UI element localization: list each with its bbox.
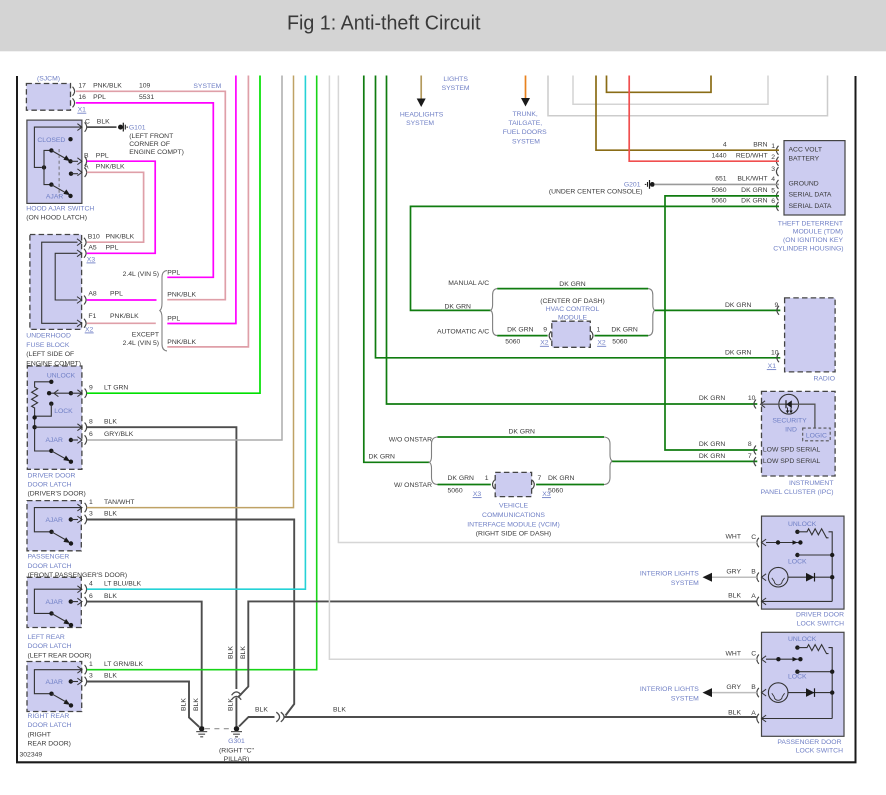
wire LT GRN driver latch pin 9 to top: [87, 75, 260, 393]
svg-text:1: 1: [89, 499, 93, 506]
svg-text:X2: X2: [597, 340, 606, 347]
svg-text:AJAR: AJAR: [46, 517, 63, 524]
svg-text:TRUNK,: TRUNK,: [512, 111, 537, 118]
svg-text:(LEFT REAR DOOR): (LEFT REAR DOOR): [28, 652, 92, 659]
svg-text:AJAR: AJAR: [46, 599, 63, 606]
svg-text:5060: 5060: [612, 339, 627, 346]
svg-text:6: 6: [89, 431, 93, 438]
svg-text:AUTOMATIC A/C: AUTOMATIC A/C: [437, 329, 489, 336]
onstar closing brace: [604, 437, 612, 485]
wire BRN TDM pin 1 to top: [596, 75, 779, 150]
onstar opening brace: [429, 437, 437, 485]
svg-text:SYSTEM: SYSTEM: [406, 120, 434, 127]
wire PNK/BLK option (except 2.4L) to top: [167, 75, 248, 347]
svg-text:DK GRN: DK GRN: [559, 281, 586, 288]
wire RED/WHT TDM pin 2 to top: [629, 75, 779, 161]
svg-text:302349: 302349: [20, 752, 43, 759]
svg-text:B: B: [751, 684, 756, 691]
svg-text:PASSENGER DOOR: PASSENGER DOOR: [777, 739, 841, 746]
lock contact: [795, 670, 799, 674]
svg-text:16: 16: [78, 94, 86, 101]
svg-text:BLK: BLK: [228, 646, 235, 659]
ground G301 left junction: [199, 726, 204, 731]
wire pin 8 internal: [35, 426, 82, 428]
wire DK GRN automatic A/C branch left: [497, 335, 547, 337]
svg-text:(UNDER CENTER CONSOLE): (UNDER CENTER CONSOLE): [549, 188, 643, 195]
svg-text:DK GRN: DK GRN: [448, 475, 475, 482]
svg-text:PNK/BLK: PNK/BLK: [167, 292, 196, 299]
svg-text:PANEL CLUSTER (IPC): PANEL CLUSTER (IPC): [761, 489, 834, 496]
illumination lamp: [768, 683, 788, 703]
hvac closing brace: [648, 289, 655, 336]
svg-text:LOCK: LOCK: [788, 559, 807, 566]
svg-text:17: 17: [78, 83, 86, 90]
svg-text:PASSENGER: PASSENGER: [28, 554, 70, 561]
svg-text:5060: 5060: [711, 187, 726, 194]
svg-text:DOOR LATCH: DOOR LATCH: [28, 722, 72, 729]
svg-text:9: 9: [89, 384, 93, 391]
illumination lamp: [768, 567, 788, 587]
hood switch upper arm: [44, 150, 51, 167]
svg-text:C: C: [85, 118, 90, 125]
svg-text:3: 3: [89, 673, 93, 680]
svg-text:LEFT REAR: LEFT REAR: [28, 634, 65, 641]
svg-text:AJAR: AJAR: [46, 679, 63, 686]
wire BLK/WHT TDM pin 4 to G201: [655, 183, 779, 185]
arrow + wire GRY to interior lights: [703, 573, 713, 582]
svg-text:1: 1: [771, 143, 775, 150]
svg-text:SERIAL DATA: SERIAL DATA: [789, 191, 832, 198]
logic block: [803, 428, 831, 441]
svg-text:(RIGHT SIDE OF DASH): (RIGHT SIDE OF DASH): [476, 531, 551, 538]
white cover clipping top of diagram: [0, 51, 886, 75]
svg-text:BLK: BLK: [255, 707, 268, 714]
svg-text:CORNER OF: CORNER OF: [129, 141, 170, 148]
hood switch lower arm: [44, 167, 51, 184]
svg-text:1: 1: [597, 327, 601, 334]
header bar: [0, 0, 886, 51]
svg-text:GRY/BLK: GRY/BLK: [104, 431, 134, 438]
wire PPL option (2.4L) to top: [167, 75, 236, 324]
svg-text:X2: X2: [540, 340, 549, 347]
svg-text:DK GRN: DK GRN: [508, 429, 535, 436]
svg-text:AJAR: AJAR: [46, 194, 63, 201]
wire PPL hood pin B to fuse block A5: [87, 161, 155, 253]
svg-text:DK GRN: DK GRN: [741, 198, 768, 205]
lock contact: [795, 553, 799, 557]
svg-text:DK GRN: DK GRN: [699, 453, 726, 460]
svg-text:LOCK SWITCH: LOCK SWITCH: [797, 621, 844, 628]
svg-text:1: 1: [89, 661, 93, 668]
svg-text:BLK: BLK: [97, 118, 110, 125]
svg-text:INTERIOR LIGHTS: INTERIOR LIGHTS: [640, 686, 699, 693]
svg-text:(RIGHT "C": (RIGHT "C": [219, 747, 254, 754]
ground G201: [650, 182, 655, 187]
wire PNK/BLK 109 from BCM pin 17 to option splice: [76, 91, 225, 299]
wire GRY/BLK driver latch pin 6 to top: [87, 75, 282, 440]
svg-text:(LEFT SIDE OF: (LEFT SIDE OF: [26, 351, 74, 358]
svg-text:BLK: BLK: [333, 707, 346, 714]
svg-text:BRN: BRN: [753, 141, 767, 148]
passenger latch ajar switch: [34, 508, 82, 532]
svg-text:LOW SPD SERIAL: LOW SPD SERIAL: [763, 458, 821, 465]
wire WHT passenger lock pin C to top: [329, 75, 756, 659]
svg-text:DOOR LATCH: DOOR LATCH: [28, 482, 72, 489]
svg-text:(CENTER OF DASH): (CENTER OF DASH): [540, 298, 605, 305]
svg-text:INSTRUMENT: INSTRUMENT: [789, 480, 834, 487]
svg-text:3: 3: [89, 511, 93, 518]
ground G101: [118, 125, 123, 130]
svg-text:3: 3: [771, 166, 775, 173]
svg-text:THEFT DETERRENT: THEFT DETERRENT: [778, 220, 843, 227]
arrow + wire GRY to interior lights: [703, 688, 713, 697]
wire BLK from driver lock switch pin A to G301: [239, 601, 757, 696]
svg-text:6: 6: [89, 593, 93, 600]
svg-text:PNK/BLK: PNK/BLK: [110, 313, 139, 320]
svg-text:10: 10: [771, 349, 779, 356]
svg-text:PPL: PPL: [93, 94, 106, 101]
svg-text:9: 9: [543, 327, 547, 334]
svg-text:CYLINDER HOUSING): CYLINDER HOUSING): [773, 245, 843, 252]
svg-text:109: 109: [139, 83, 151, 90]
latch lock/unlock resistor: [35, 382, 52, 385]
svg-text:G101: G101: [129, 125, 146, 132]
svg-text:UNLOCK: UNLOCK: [788, 636, 817, 643]
svg-text:DK GRN: DK GRN: [369, 453, 396, 460]
svg-text:SYSTEM: SYSTEM: [442, 85, 470, 92]
svg-text:BLK: BLK: [104, 593, 117, 600]
svg-text:CLOSED: CLOSED: [37, 137, 65, 144]
VCIM connector: [495, 472, 531, 496]
svg-text:8: 8: [748, 441, 752, 448]
wire LT BLU/BLK left rear latch pin 4 to top: [87, 75, 306, 589]
svg-text:7: 7: [748, 453, 752, 460]
svg-text:LIGHTS: LIGHTS: [443, 76, 468, 83]
pin A internal: [762, 718, 832, 720]
svg-text:PNK/BLK: PNK/BLK: [96, 164, 125, 171]
svg-text:5060: 5060: [448, 488, 463, 495]
svg-text:(SJCM): (SJCM): [37, 76, 60, 83]
wire DK GRN to IPC pin 10: [387, 75, 758, 404]
svg-text:BLK: BLK: [227, 698, 234, 711]
svg-text:RADIO: RADIO: [813, 376, 835, 383]
wire DK GRN hvac output to radio pin 9: [655, 309, 781, 311]
fuse block internal link B10-F1: [42, 242, 78, 323]
svg-text:X1: X1: [78, 107, 87, 114]
option splice brace: [160, 271, 167, 351]
wire BLK right rear latch pin 3 down to G301: [87, 682, 200, 728]
TDM pins: [776, 146, 778, 155]
wire DK GRN manual A/C branch: [497, 288, 648, 290]
svg-text:5531: 5531: [139, 94, 154, 101]
wire BLK driver latch pin 8 down to G301: [87, 427, 237, 689]
svg-text:(LEFT FRONT: (LEFT FRONT: [129, 133, 173, 140]
svg-text:TAILGATE,: TAILGATE,: [508, 120, 542, 127]
svg-text:C: C: [751, 651, 756, 658]
hood switch pins: [77, 124, 82, 131]
cut wire loop (brown): [607, 75, 712, 92]
svg-text:RED/WHT: RED/WHT: [736, 152, 768, 159]
svg-text:10: 10: [748, 395, 756, 402]
svg-text:HVAC CONTROL: HVAC CONTROL: [546, 306, 600, 313]
svg-text:4: 4: [723, 141, 727, 148]
svg-text:B10: B10: [88, 233, 100, 240]
svg-text:ACC VOLT: ACC VOLT: [789, 147, 823, 154]
svg-text:HEADLIGHTS: HEADLIGHTS: [400, 111, 444, 118]
module BCM connector (cut at top): [26, 84, 70, 111]
svg-text:PPL: PPL: [167, 269, 180, 276]
svg-text:9: 9: [775, 302, 779, 309]
svg-text:(ON HOOD LATCH): (ON HOOD LATCH): [26, 215, 87, 222]
svg-text:MODULE (TDM): MODULE (TDM): [793, 229, 843, 236]
wire DK GRN automatic A/C branch right: [595, 335, 649, 337]
driver door door latch: [27, 366, 82, 469]
svg-text:6: 6: [771, 198, 775, 205]
svg-text:BLK: BLK: [728, 710, 741, 717]
svg-text:A5: A5: [88, 244, 97, 251]
svg-text:UNLOCK: UNLOCK: [47, 372, 76, 379]
svg-text:LOCK SWITCH: LOCK SWITCH: [796, 748, 843, 755]
svg-text:(RIGHT: (RIGHT: [28, 731, 51, 738]
svg-text:W/O ONSTAR: W/O ONSTAR: [389, 436, 432, 443]
svg-text:BLK: BLK: [728, 593, 741, 600]
driver door lock switch: [762, 516, 845, 609]
svg-text:HOOD AJAR SWITCH: HOOD AJAR SWITCH: [26, 206, 94, 213]
svg-text:DRIVER DOOR: DRIVER DOOR: [796, 611, 844, 618]
right rear door latch: [27, 662, 82, 712]
rotated BLK labels near grounds: [180, 646, 247, 711]
svg-text:PPL: PPL: [110, 290, 123, 297]
arrow to headlights system: [420, 75, 422, 99]
svg-text:MANUAL A/C: MANUAL A/C: [448, 280, 489, 287]
svg-text:C: C: [751, 534, 756, 541]
wire BLK left rear latch pin 6 down to G301: [87, 602, 202, 726]
latch switch arm pin 9: [49, 392, 71, 394]
underhood fuse block: [30, 235, 82, 330]
svg-text:LOGIC: LOGIC: [806, 432, 827, 439]
svg-text:DOOR LATCH: DOOR LATCH: [28, 643, 72, 650]
svg-text:4: 4: [89, 580, 93, 587]
svg-text:W/ ONSTAR: W/ ONSTAR: [394, 482, 432, 489]
wire LT GRN/BLK right rear latch pin 1 to top: [87, 75, 317, 670]
svg-text:X3: X3: [473, 491, 482, 498]
svg-text:8: 8: [89, 418, 93, 425]
svg-text:A: A: [751, 593, 756, 600]
svg-text:GRY: GRY: [726, 568, 741, 575]
svg-text:VEHICLE: VEHICLE: [499, 503, 529, 510]
svg-text:5060: 5060: [711, 198, 726, 205]
left rear door latch: [27, 577, 81, 627]
svg-text:DOOR LATCH: DOOR LATCH: [28, 563, 72, 570]
svg-text:B: B: [751, 569, 756, 576]
svg-text:DK GRN: DK GRN: [699, 441, 726, 448]
frame bottom border: [16, 761, 857, 763]
svg-text:(DRIVER'S DOOR): (DRIVER'S DOOR): [28, 491, 86, 498]
passenger door lock switch: [762, 632, 845, 736]
svg-text:INTERFACE MODULE (VCIM): INTERFACE MODULE (VCIM): [467, 521, 560, 528]
svg-text:EXCEPT: EXCEPT: [132, 332, 159, 339]
driver latch pins: [77, 390, 82, 397]
svg-text:X2: X2: [85, 326, 94, 333]
svg-text:4: 4: [771, 176, 775, 183]
hood ajar switch: [27, 120, 82, 203]
svg-text:WHT: WHT: [726, 650, 741, 657]
svg-text:BLK: BLK: [180, 698, 187, 711]
diode: [788, 576, 832, 578]
svg-text:1: 1: [485, 475, 489, 482]
svg-text:PILLAR): PILLAR): [224, 756, 250, 763]
wire BLK hood pin C to G101: [87, 126, 117, 128]
svg-text:5060: 5060: [505, 339, 520, 346]
wire BLK passenger latch pin 3 down to splice: [87, 520, 294, 716]
arrow to trunk tailgate fuel doors system: [525, 75, 527, 98]
frame right border: [855, 76, 857, 763]
svg-text:2: 2: [771, 154, 775, 161]
svg-text:7: 7: [538, 475, 542, 482]
svg-text:SYSTEM: SYSTEM: [671, 580, 699, 587]
wire WHT driver lock pin C to top: [338, 75, 756, 543]
svg-text:COMMUNICATIONS: COMMUNICATIONS: [482, 512, 545, 519]
svg-text:DK GRN: DK GRN: [548, 475, 575, 482]
svg-text:DK GRN: DK GRN: [507, 327, 534, 334]
module theft deterrent module (TDM): [784, 141, 845, 215]
lock switch arm: [766, 658, 800, 660]
svg-text:2.4L (VIN 5): 2.4L (VIN 5): [123, 271, 159, 278]
svg-text:DK GRN: DK GRN: [725, 349, 752, 356]
diode: [788, 692, 832, 694]
svg-text:LT BLU/BLK: LT BLU/BLK: [104, 580, 142, 587]
svg-text:PNK/BLK: PNK/BLK: [93, 83, 122, 90]
wire DK GRN w/o onstar branch: [438, 436, 605, 438]
module radio: [785, 298, 836, 372]
cut wire box A (gray): [548, 75, 828, 116]
svg-text:PPL: PPL: [96, 152, 109, 159]
hvac opening brace: [491, 289, 498, 336]
svg-text:PPL: PPL: [167, 316, 180, 323]
svg-text:DRIVER DOOR: DRIVER DOOR: [28, 472, 76, 479]
svg-text:FUSE BLOCK: FUSE BLOCK: [26, 342, 70, 349]
svg-text:BLK: BLK: [104, 418, 117, 425]
wire DK GRN TDM pin 6 to HVAC splice: [411, 206, 780, 310]
svg-text:ENGINE COMPT): ENGINE COMPT): [129, 149, 184, 156]
wire DK GRN TDM pin 5 to IPC pin 8: [665, 196, 779, 450]
svg-text:AJAR: AJAR: [46, 437, 63, 444]
svg-text:GROUND: GROUND: [789, 180, 819, 187]
svg-text:GRY: GRY: [726, 684, 741, 691]
svg-text:IND: IND: [785, 426, 797, 433]
wire PPL stub from fuse A8: [87, 299, 157, 301]
svg-text:LT GRN: LT GRN: [104, 384, 128, 391]
svg-text:X1: X1: [768, 363, 777, 370]
svg-text:PNK/BLK: PNK/BLK: [167, 339, 196, 346]
svg-text:DK GRN: DK GRN: [725, 302, 752, 309]
svg-text:SYSTEM: SYSTEM: [671, 695, 699, 702]
svg-text:BLK: BLK: [240, 646, 247, 659]
svg-text:LT GRN/BLK: LT GRN/BLK: [104, 661, 143, 668]
svg-text:PNK/BLK: PNK/BLK: [106, 233, 135, 240]
fuse block internal link A5-A8: [55, 253, 77, 300]
wire DK GRN to onstar splice: [364, 75, 429, 462]
svg-text:SYSTEM: SYSTEM: [193, 83, 221, 90]
svg-text:X3: X3: [87, 256, 96, 263]
frame left border: [16, 76, 18, 763]
bottom BLK run to passenger lock switch pin A: [239, 717, 275, 727]
lock switch resistor: [795, 530, 799, 534]
svg-text:A: A: [84, 164, 89, 171]
svg-text:UNLOCK: UNLOCK: [788, 521, 817, 528]
module instrument panel cluster (IPC): [762, 391, 836, 476]
inline connector on BLK wire: [232, 692, 242, 695]
hood switch contacts: [68, 137, 72, 141]
svg-text:2.4L (VIN 5): 2.4L (VIN 5): [123, 340, 159, 347]
svg-text:PPL: PPL: [106, 244, 119, 251]
wire DK GRN w/ onstar branch left: [438, 484, 491, 486]
svg-text:FUEL DOORS: FUEL DOORS: [503, 129, 547, 136]
hood switch common wire (pin C): [34, 127, 82, 167]
svg-text:Fig 1: Anti-theft Circuit: Fig 1: Anti-theft Circuit: [287, 13, 481, 35]
svg-text:1440: 1440: [711, 152, 726, 159]
wire DK GRN onstar output to IPC pin 7: [612, 460, 757, 462]
fuse block pins: [84, 238, 86, 247]
svg-text:REAR DOOR): REAR DOOR): [28, 741, 71, 748]
passenger door door latch: [27, 501, 81, 551]
svg-text:DK GRN: DK GRN: [699, 395, 726, 402]
svg-text:DK GRN: DK GRN: [445, 303, 472, 310]
security indicator lamp: [779, 394, 799, 414]
svg-text:5: 5: [771, 187, 775, 194]
svg-text:A8: A8: [88, 290, 97, 297]
svg-text:X3: X3: [542, 491, 551, 498]
svg-text:TAN/WHT: TAN/WHT: [104, 499, 134, 506]
svg-text:BLK: BLK: [193, 698, 200, 711]
svg-text:BATTERY: BATTERY: [789, 156, 820, 163]
wire PNK/BLK stub from fuse F1: [87, 322, 156, 324]
svg-text:LOW SPD SERIAL: LOW SPD SERIAL: [763, 447, 821, 454]
svg-text:DK GRN: DK GRN: [741, 187, 768, 194]
svg-text:BLK: BLK: [104, 511, 117, 518]
svg-text:INTERIOR LIGHTS: INTERIOR LIGHTS: [640, 571, 699, 578]
hood switch mechanical link (dashed): [58, 149, 60, 196]
wire DK GRN to radio pin 10: [376, 75, 781, 358]
wire TAN/WHT passenger latch pin 1 to top: [87, 75, 294, 508]
svg-text:(ON IGNITION KEY: (ON IGNITION KEY: [783, 237, 844, 244]
svg-text:F1: F1: [88, 313, 96, 320]
svg-text:B: B: [84, 152, 89, 159]
pin A internal: [762, 600, 832, 602]
latch lock contact: [49, 402, 53, 406]
lock switch arm: [766, 542, 800, 544]
svg-text:LOCK: LOCK: [54, 408, 73, 415]
svg-text:LOCK: LOCK: [788, 673, 807, 680]
svg-text:RIGHT REAR: RIGHT REAR: [28, 713, 70, 720]
svg-text:SERIAL DATA: SERIAL DATA: [789, 203, 832, 210]
svg-text:A: A: [751, 710, 756, 717]
svg-text:WHT: WHT: [726, 534, 741, 541]
svg-text:SECURITY: SECURITY: [772, 417, 807, 424]
svg-text:651: 651: [715, 176, 727, 183]
wire PPL 5531 from BCM pin 16 to option splice: [76, 103, 213, 277]
inline connector on bottom BLK run: [276, 712, 279, 722]
svg-text:BLK/WHT: BLK/WHT: [737, 176, 767, 183]
wire DK GRN w/ onstar branch right: [536, 484, 604, 486]
svg-text:MODULE: MODULE: [558, 314, 588, 321]
lock switch pins: [757, 538, 759, 547]
cut wire box B (gray): [573, 75, 768, 104]
wire PNK/BLK hood pin A to fuse block B10: [87, 172, 144, 242]
hvac control module connector: [552, 321, 591, 347]
svg-text:DK GRN: DK GRN: [611, 327, 638, 334]
ground G301 right junction: [234, 726, 239, 731]
